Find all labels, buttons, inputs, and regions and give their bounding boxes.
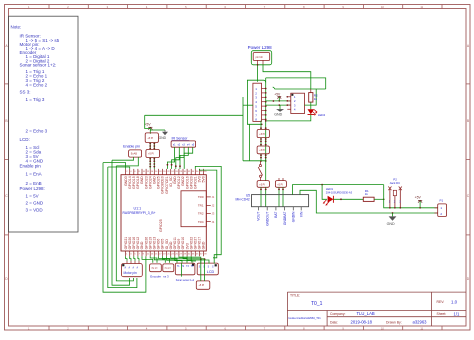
wire column x261 through boxes (260, 121, 262, 161)
svg-text:SS 3:: SS 3: (20, 90, 31, 95)
wires pi pins to motor box (126, 256, 139, 261)
svg-text:1.0: 1.0 (451, 299, 458, 304)
frame column ticks top (48, 5, 50, 9)
8-pin header right stubs (262, 89, 266, 120)
LED LED1 (323, 196, 333, 206)
svg-text:3 = VDD: 3 = VDD (26, 208, 44, 213)
svg-text:Sonar sensor 1+2: Sonar sensor 1+2 (176, 279, 195, 282)
wire left rail D (116, 166, 133, 281)
svg-text:TR2: TR2 (198, 212, 204, 216)
raspberry pi U1 body (121, 175, 206, 251)
wire LED4 to bottom bus (266, 115, 311, 121)
svg-text:LCD: LCD (207, 270, 215, 274)
wires box1 to box2 to pi pins 7-8 (150, 143, 154, 169)
svg-text:IR Sensor: IR Sensor (172, 137, 189, 141)
connector P2 jack dc labels (390, 177, 401, 185)
power flag +5V L298 (274, 92, 281, 101)
box D top stubs (279, 178, 283, 181)
svg-text:GND: GND (274, 112, 282, 116)
svg-text:Power L298:: Power L298: (20, 186, 45, 191)
svg-text:Motor pin: Motor pin (124, 271, 138, 275)
wires IR sensor to pi pins staircase (167, 147, 192, 169)
svg-text:U1:1: U1:1 (134, 207, 142, 211)
connector L298 power header box (253, 53, 270, 61)
svg-text:Enable pin: Enable pin (123, 144, 140, 148)
wire bus1 down to LED1 (322, 185, 327, 200)
motor pin top stubs (127, 261, 139, 264)
svg-text:GND: GND (387, 222, 395, 226)
svg-text:P1: P1 (440, 198, 444, 202)
wire middle vertical to switch node (242, 97, 244, 161)
svg-text:Company:: Company: (330, 312, 346, 316)
connector header box1 top (145, 133, 158, 143)
L298 header pin stubs (258, 60, 263, 64)
raspberry pi top pin numbers (126, 171, 207, 173)
svg-text:Sheet:: Sheet: (437, 312, 447, 316)
wires pi to sonar box (163, 256, 193, 263)
svg-text:+5 PI: +5 PI (199, 284, 205, 287)
wire row3 of 4pin box (266, 104, 291, 106)
wire left-pin jog A (243, 104, 253, 106)
frame row ticks right (466, 83, 470, 85)
svg-text:TR4: TR4 (198, 220, 204, 224)
wire left rail B (108, 167, 137, 288)
label encoder ss3 (150, 274, 169, 278)
svg-text:TR0: TR0 (198, 195, 204, 199)
wire switch node horizontal (243, 160, 266, 162)
svg-text:+5 PI: +5 PI (277, 183, 283, 186)
gnd flag top cluster (150, 130, 168, 140)
title block Company (330, 311, 375, 316)
junction dot led bus (265, 120, 267, 122)
svg-text:GNDBAT: GNDBAT (283, 212, 287, 226)
U5 bottom pins and labels (257, 207, 304, 226)
svg-text:TITLE:: TITLE: (290, 294, 300, 298)
raspberry pi TR pin rows (198, 195, 215, 224)
connector 4-pin box U3 (287, 93, 304, 113)
wire x265.7 to box C pin2 (265, 161, 267, 181)
svg-text:GND: GND (202, 241, 206, 249)
svg-text:EnAB: EnAB (131, 153, 138, 156)
connector box D (275, 181, 286, 188)
raspberry pi top pin labels (124, 176, 206, 194)
title block REV (437, 299, 458, 304)
svg-text:1 = EnA: 1 = EnA (26, 171, 42, 176)
wire enable pin1 to left rail (112, 157, 134, 160)
switch S1 (258, 161, 262, 181)
connector P2 jack dc symbol (388, 187, 402, 208)
raspberry pi TR sub-box (181, 191, 206, 227)
connector LCD box (197, 263, 218, 275)
svg-text:Note:: Note: (11, 24, 22, 29)
label IR Sensor (172, 137, 190, 141)
svg-text:2019-08-18: 2019-08-18 (351, 320, 373, 325)
junction dots 4pin rows (273, 96, 289, 106)
connector motor pin box (122, 264, 143, 277)
svg-text:lceda.cn/editor/a32963_T01: lceda.cn/editor/a32963_T01 (289, 316, 322, 320)
junction dot L298 header pin1 (257, 64, 259, 66)
wire 8pin bottom drop (249, 124, 251, 161)
connector IR sensor box (171, 141, 196, 147)
svg-text:1/1: 1/1 (454, 312, 460, 317)
svg-text:a32963: a32963 (413, 320, 428, 325)
wire left rail to pi pin2 (108, 167, 130, 169)
wire R1 to vertical (374, 198, 384, 200)
wire row2 of 4pin box (266, 100, 291, 102)
resistor R2 (309, 89, 318, 102)
junction dots above lcd (200, 258, 206, 260)
wire bus1 U5 to right (293, 185, 384, 195)
svg-text:+5 PI: +5 PI (147, 137, 153, 140)
title block outline (287, 292, 466, 326)
svg-text:Drawn By:: Drawn By: (386, 320, 402, 324)
LED LED4 (308, 109, 326, 117)
svg-text:GND: GND (159, 136, 167, 140)
svg-text:VOUT: VOUT (257, 212, 261, 221)
title block Date row (330, 320, 427, 325)
U5 power module body (252, 195, 309, 207)
junction dot led1 r1 (340, 198, 342, 200)
svg-text:4 = Echo 2: 4 = Echo 2 (26, 82, 48, 87)
frame row ticks left (5, 83, 9, 85)
frame column ticks bottom (48, 326, 50, 330)
gnd flag P2 (387, 212, 397, 226)
svg-text:LED4: LED4 (318, 113, 326, 117)
wire L298 header pin2 to R2 top (263, 65, 311, 89)
junction dot bus1 led (321, 184, 323, 186)
wires lcd to below box (201, 259, 205, 281)
svg-text:Power L298: Power L298 (248, 45, 273, 50)
svg-text:TR1: TR1 (198, 204, 204, 208)
wire left rail A (103, 163, 146, 293)
wire loop around 8-pin header (247, 80, 265, 124)
connector box B (257, 146, 269, 154)
connector enable pin box (129, 150, 142, 157)
wire enable pin2 to left rail (116, 157, 138, 166)
junction dots box1 box2 column (149, 143, 155, 168)
svg-text:Encoder: Encoder (150, 274, 161, 278)
svg-text:204-10SURD/S530-A3: 204-10SURD/S530-A3 (326, 190, 353, 194)
junction dot r1 vertical (383, 198, 385, 200)
svg-text:REV:: REV: (437, 300, 445, 304)
wire L298 header pin1 down (257, 65, 259, 82)
wires pi to lcd box (179, 256, 209, 263)
wires pi to encoder boxes (142, 256, 170, 263)
wire pi pin18 route to lcd right (195, 166, 221, 263)
svg-text:RASPBERRYPI_3_B+: RASPBERRYPI_3_B+ (123, 211, 156, 215)
junction dots under ir wires (167, 164, 181, 167)
wire through sonar box (181, 263, 183, 277)
svg-text:1 = Trig 3: 1 = Trig 3 (26, 97, 45, 102)
raspberry pi bottom pin numbers (126, 254, 207, 256)
svg-text:Enable pin: Enable pin (20, 163, 42, 168)
svg-text:1k: 1k (314, 97, 318, 101)
title block Sheet (437, 312, 460, 317)
junction dots on right bus (261, 88, 267, 126)
U5 refdes (236, 193, 251, 201)
svg-text:dig pin: dig pin (151, 268, 158, 270)
svg-text:MH-CD42: MH-CD42 (236, 197, 250, 201)
wire 4pin loop top (266, 78, 326, 89)
svg-text:Sonar sensor 1+2:: Sonar sensor 1+2: (20, 63, 57, 68)
connector below-lcd box (196, 281, 210, 289)
wire +5V to bus (145, 115, 151, 128)
connector header box2 (146, 150, 160, 158)
svg-text:1 = 5V: 1 = 5V (26, 193, 39, 198)
wire top horizontal bus (145, 114, 243, 116)
connector encoder box2 (163, 264, 174, 272)
power flag +5V top (144, 123, 152, 134)
svg-text:GPIO25: GPIO25 (159, 219, 163, 232)
junction dots P2 pins on bus (389, 207, 401, 209)
power flag +5V P1 (415, 196, 423, 209)
connector box C (257, 181, 269, 188)
wire left rail C (112, 160, 130, 285)
connector box A (257, 130, 269, 138)
wire right bus of 8-pin header (265, 78, 267, 161)
note box border (9, 16, 79, 232)
gnd flag L298 (274, 105, 284, 116)
wire LED1 to R1 (333, 198, 363, 200)
svg-text:+5 PI: +5 PI (259, 183, 265, 186)
svg-text:+5V: +5V (415, 196, 422, 200)
svg-text:2 = Echo 3: 2 = Echo 3 (26, 129, 48, 134)
junction dots under box C D (260, 189, 284, 191)
junction dots boxes A B (260, 127, 267, 162)
svg-text:GNDIN: GNDIN (292, 211, 296, 222)
wire bus2 U5 loop to P1 pin2 (300, 190, 438, 213)
wire loop around L298 header (251, 51, 271, 65)
raspberry pi bottom pin labels (124, 237, 206, 250)
svg-text:+5 PI: +5 PI (259, 133, 265, 136)
wire pi pin19 route to lcd right (199, 169, 216, 258)
connector P1 (434, 198, 446, 216)
wire left rail to pi pin1 (103, 163, 126, 169)
raspberry pi top pin stubs (126, 169, 204, 175)
svg-text:+5 PI: +5 PI (148, 153, 154, 156)
svg-text:Jack DC: Jack DC (390, 181, 401, 185)
raspberry pi bottom pin stubs (126, 251, 204, 256)
svg-text:Date:: Date: (330, 320, 338, 324)
svg-text:+5V: +5V (274, 92, 281, 96)
wire h89 to R2 (273, 87, 326, 89)
svg-text:5V0: 5V0 (202, 176, 206, 182)
resistor R1 (363, 189, 374, 202)
wire right branch to row3 (305, 89, 317, 105)
wires boxes C D into U5 (261, 187, 283, 206)
svg-text:BAT: BAT (274, 212, 278, 218)
svg-text:+5 PI: +5 PI (259, 149, 265, 152)
LED LED1 labels (326, 187, 353, 194)
svg-text:2 = GND: 2 = GND (26, 201, 44, 206)
svg-text:GNDOUT: GNDOUT (265, 212, 269, 226)
svg-text:LCD:: LCD: (20, 137, 30, 142)
svg-text:+5V: +5V (144, 123, 151, 127)
svg-text:ss 3: ss 3 (163, 274, 169, 278)
wire column x265.7 between boxes (265, 138, 267, 161)
svg-text:dig pin: dig pin (165, 268, 172, 270)
svg-text:pin hdr: pin hdr (256, 56, 264, 59)
wire R2 to LED4 (310, 102, 312, 109)
svg-text:TLU_LAB: TLU_LAB (357, 311, 375, 316)
svg-text:VIN: VIN (299, 211, 303, 217)
wire right vertical to bottom bus (384, 185, 438, 208)
connector encoder box1 (150, 264, 162, 272)
note text (11, 24, 60, 212)
connector sonar box (175, 263, 195, 275)
svg-text:T0_1: T0_1 (311, 301, 323, 307)
connector 8-pin header P3 (253, 83, 262, 121)
